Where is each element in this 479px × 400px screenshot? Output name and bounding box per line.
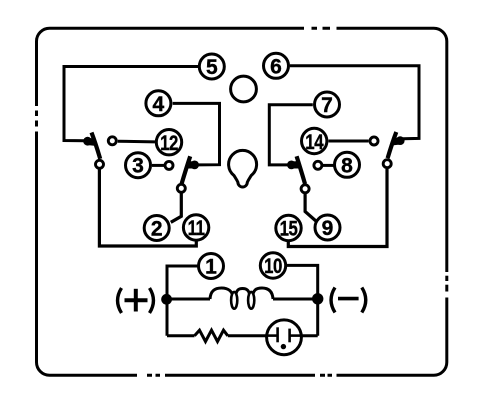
moving terminal circle C [383,160,391,168]
moving terminal circle B [177,184,185,192]
wire lamp to (-) rail [301,334,318,337]
svg-text:8: 8 [341,154,353,177]
armature D [297,156,305,184]
pin 5 [199,54,224,79]
keyhole alignment post [229,150,257,187]
pin 6 [264,53,289,78]
relay case outline (rounded border) [37,28,447,375]
svg-text:3: 3 [132,155,144,178]
pin 1 [199,254,224,279]
svg-text:10: 10 [264,255,282,278]
svg-text:12: 12 [160,133,178,156]
wire NC to pin 12 [118,140,155,144]
wire pin5 to left [64,67,200,141]
wire pin3 to NC [152,164,164,167]
wire B tip down to pin 2 [171,193,182,222]
coil L [210,288,233,299]
blank alignment circle (top) [231,76,257,102]
armature B [182,156,191,184]
pin 10 [260,253,285,279]
wire resistor to lamp [228,334,266,337]
moving terminal circle D [301,185,309,193]
wire pin10 to (-) rail [287,265,318,335]
wire (+) to coil [167,298,210,301]
resistor R [195,330,228,341]
pin 7 [315,92,340,117]
pin 15 [276,215,301,241]
NC terminal circle (to 14) [370,137,378,145]
svg-text:5: 5 [206,56,218,79]
NC terminal circle (to 8) [314,161,322,169]
svg-text:9: 9 [322,217,334,240]
wire NC to pin 8 [323,164,334,167]
pin 14 [302,128,327,154]
svg-text:4: 4 [153,93,165,116]
pin 4 [146,91,171,116]
svg-text:6: 6 [270,55,282,78]
svg-text:7: 7 [321,94,333,117]
svg-text:11: 11 [188,217,206,240]
border dash gaps (white overpaint) [31,24,452,379]
armature C [388,132,397,158]
neon lamp indicator [267,320,302,355]
contact pivot dot C [396,136,405,145]
wire pin6 to right [290,66,419,139]
svg-text:2: 2 [151,218,163,241]
pin 11 [183,215,208,241]
svg-text:14: 14 [305,131,324,154]
pin 9 [315,215,340,240]
svg-text:15: 15 [280,218,299,241]
pin 12 [156,130,181,156]
label (+) [118,288,154,313]
contact pivot dot D [287,161,296,170]
wire pin4 to pivot [173,103,220,164]
pin 8 [335,152,360,177]
wire pin7 to pivot [269,105,313,165]
pin 2 [144,216,169,241]
node (-) [312,293,323,304]
wire NC to pin 14 [329,140,369,143]
wire A tip down to pin 11 [99,170,196,247]
node (+) [161,294,172,305]
wire C tip down to pin 15 [288,169,387,247]
NC terminal circle (to 12) [108,137,116,145]
svg-text:1: 1 [205,256,217,279]
contact pivot dot B [190,161,199,170]
moving terminal circle A [96,160,104,168]
wire pin1 to (+) rail [167,266,199,336]
wire to resistor [167,334,195,337]
armature A [92,133,101,159]
wire coil to (-) [273,298,318,301]
pin 3 [126,153,151,178]
contact pivot dot A [83,137,92,146]
label (-) [331,288,366,313]
NC terminal circle (to 3) [165,161,173,169]
wire D tip down to pin 9 [305,194,316,222]
